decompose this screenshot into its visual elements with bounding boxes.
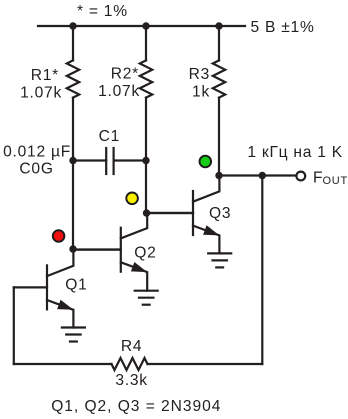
label R2* 1.07k — [98, 66, 140, 100]
transistor Q2 collector — [121, 213, 147, 238]
resistor R1 — [67, 60, 79, 97]
node dot: output node R3/Q3 collector — [215, 172, 222, 179]
svg-text:OUT: OUT — [323, 175, 348, 187]
wire output line to FOUT — [219, 174, 296, 176]
svg-text:Q3: Q3 — [209, 205, 231, 222]
svg-text:Q1, Q2, Q3 = 2N3904: Q1, Q2, Q3 = 2N3904 — [51, 398, 221, 415]
svg-text:C0G: C0G — [19, 161, 53, 178]
svg-text:R2*: R2* — [111, 66, 139, 83]
label 0.012 µF C0G — [3, 143, 71, 177]
transistor Q3 emitter with arrow — [193, 226, 219, 254]
marker dot yellow (Q2 collector node) — [126, 193, 138, 205]
label R1* 1.07k — [20, 67, 62, 101]
node dot: rail to R2 — [142, 22, 149, 29]
node dot: rail to R3 — [215, 22, 222, 29]
svg-text:1k: 1k — [192, 84, 210, 101]
svg-text:Q2: Q2 — [134, 244, 156, 261]
wire rail to R2 — [145, 26, 147, 60]
svg-text:0.012 µF: 0.012 µF — [3, 143, 71, 160]
marker dot red (Q1 collector node) — [53, 230, 65, 242]
wire rail to R3 — [218, 26, 220, 60]
transistor Q1 base bar — [46, 265, 48, 309]
wire R2 bottom to Q2 collector node — [145, 98, 147, 213]
label FOUT — [313, 170, 348, 188]
svg-text:C1: C1 — [99, 128, 120, 145]
svg-text:R3: R3 — [189, 66, 210, 83]
svg-text:5 В ±1%: 5 В ±1% — [251, 19, 315, 36]
transistor Q3 base bar — [192, 191, 194, 235]
wire R4 left to left riser — [14, 363, 112, 365]
label R3 1k — [189, 66, 210, 101]
wire R3 bottom to output node — [218, 98, 220, 176]
node dot: C1 right on R2 column — [142, 157, 149, 164]
output terminal circle FOUT — [296, 172, 305, 181]
wire R1 bottom to Q1 collector node — [72, 98, 74, 249]
node dot: Q2 collector / R2 / Q3 base — [143, 209, 150, 216]
capacitor C1 — [106, 148, 113, 174]
node dot: output to feedback branch — [259, 172, 266, 179]
transistor Q1 collector — [47, 249, 73, 276]
transistor Q2 base lead wire — [73, 249, 121, 251]
resistor R4 — [112, 358, 148, 370]
marker dot green (output node) — [200, 156, 212, 168]
node dot: rail to R1 — [69, 22, 76, 29]
svg-text:1.07k: 1.07k — [20, 84, 62, 101]
transistor Q2 base bar — [120, 228, 122, 272]
transistor Q3 base lead wire — [147, 212, 194, 214]
resistor R2 — [140, 60, 152, 97]
wire top 5V supply rail — [38, 25, 245, 27]
ground under Q3 — [208, 253, 231, 267]
wire rail to R1 — [72, 26, 74, 60]
transistor Q2 emitter with arrow — [121, 262, 147, 290]
svg-text:1 кГц на 1 K: 1 кГц на 1 K — [247, 144, 343, 161]
resistor R3 — [213, 60, 225, 97]
wire Q1 collector node to Q2 base — [73, 248, 121, 250]
wire C1 left lead — [73, 159, 106, 161]
ground under Q2 — [135, 291, 158, 305]
svg-text:* = 1%: * = 1% — [77, 3, 128, 20]
svg-text:Q1: Q1 — [65, 277, 87, 294]
wire feedback branch vertical — [261, 176, 263, 365]
svg-text:R4: R4 — [121, 338, 142, 355]
wire C1 right lead — [114, 159, 146, 161]
transistor Q1 base lead wire — [14, 286, 47, 288]
svg-text:1.07k: 1.07k — [98, 83, 140, 100]
svg-text:R1*: R1* — [31, 67, 59, 84]
wire bottom feedback to R4 right — [148, 363, 263, 365]
transistor Q3 collector — [193, 176, 219, 202]
node dot: Q1 collector / Q2 base — [69, 245, 76, 252]
wire left riser to Q1 base — [13, 287, 15, 364]
wire Q2 collector node to Q3 base — [147, 212, 194, 214]
transistor Q1 emitter with arrow — [47, 300, 73, 328]
node dot: C1 left on R1 column — [69, 157, 76, 164]
svg-text:3.3k: 3.3k — [115, 372, 147, 389]
ground under Q1 — [62, 328, 85, 342]
